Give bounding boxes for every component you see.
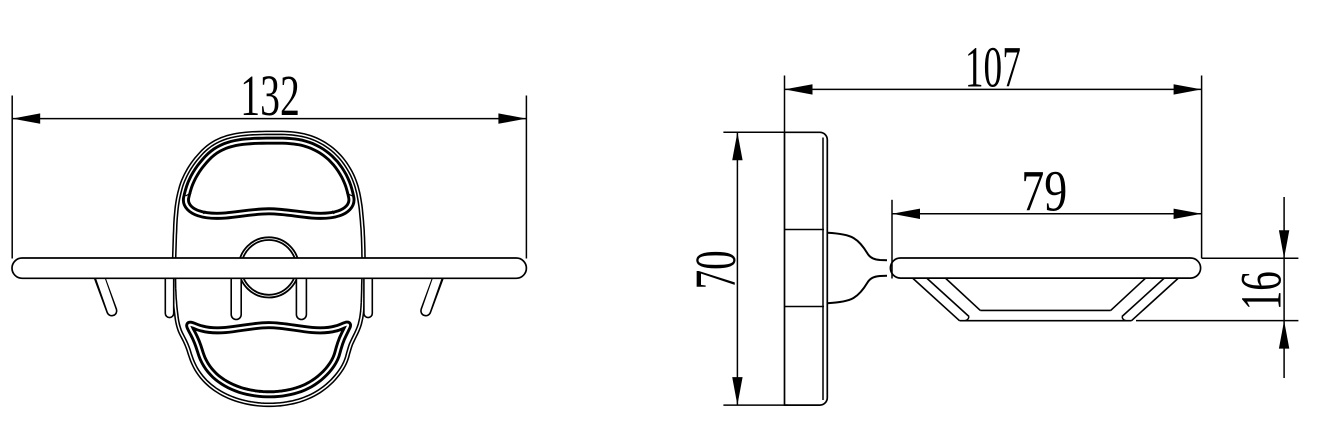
dim 107 extension line left (784, 76, 786, 132)
outer-left vertical leg (165, 270, 175, 313)
dim 70 extension line bottom (723, 404, 788, 406)
plate division line lower (785, 306, 825, 308)
top rim wire joint tick right-lower (332, 211, 334, 214)
soap dish bar (side view) (890, 258, 1200, 278)
dim 132 right arrow (498, 113, 526, 123)
top dish rim wire (D-shape) (186, 141, 352, 216)
dim 79 line (892, 213, 1202, 215)
dim 132 extension line left (11, 96, 13, 259)
dim 70 extension line top (723, 131, 788, 133)
svg-text:16: 16 (1228, 271, 1293, 310)
inner-right vertical leg (296, 270, 308, 315)
dim 79 extension line left (891, 200, 893, 279)
dim 70 top arrow (732, 132, 742, 160)
basket right middle slant (1122, 278, 1164, 317)
dim 16 extension line bottom (1136, 320, 1298, 322)
dim 132 extension line right (525, 96, 527, 259)
dim 16 line (1283, 197, 1285, 378)
svg-text:132: 132 (240, 63, 299, 128)
plate division line upper (785, 229, 825, 231)
top rim wire joint tick right-upper (346, 193, 352, 196)
dim 107 left arrow (785, 84, 813, 94)
dim 16 extension line top (1202, 257, 1299, 259)
basket left middle slant (927, 278, 969, 317)
basket left wire end tick (965, 317, 969, 321)
basket right wire end tick (1122, 317, 1126, 321)
dim 107 line (785, 88, 1202, 90)
svg-text:79: 79 (1021, 159, 1067, 224)
left diagonal leg (98, 270, 112, 311)
bottom dish rim wire (D-shape) (189, 325, 348, 395)
right diagonal leg (426, 270, 440, 311)
basket right inner slant (1111, 278, 1146, 310)
center post circle inner (241, 240, 296, 295)
basket bottom inner line (980, 309, 1110, 311)
top rim wire joint tick left-upper (186, 193, 192, 196)
dim 79 left arrow (892, 209, 920, 219)
wall plate side profile (785, 132, 828, 405)
bracket arm bottom curve (827, 276, 887, 303)
dim 107 right arrow (1174, 84, 1202, 94)
svg-text:107: 107 (965, 35, 1021, 100)
basket left outer slant (913, 278, 960, 321)
dim 70 line (736, 132, 738, 405)
dim 132 left arrow (12, 113, 40, 123)
dim 79 right arrow (1174, 209, 1202, 219)
basket left inner slant (945, 278, 980, 310)
dim 70 bottom arrow (732, 377, 742, 405)
dim 16 bottom arrow (1279, 321, 1289, 349)
top rim wire joint tick left-lower (204, 211, 206, 214)
center post circle outer (239, 237, 299, 297)
dim 16 top arrow (1279, 230, 1289, 258)
svg-text:70: 70 (683, 250, 748, 289)
basket bottom outer line (960, 320, 1132, 322)
basket right outer slant (1132, 278, 1179, 321)
dim 107/79/16 shared extension line right (1201, 76, 1203, 259)
dim 132 line (12, 118, 526, 120)
plate face inner line (822, 138, 824, 401)
inner-left vertical leg (230, 270, 242, 315)
outer-right vertical leg (363, 270, 373, 313)
wall plate outline (double line) (174, 133, 364, 405)
soap dish bar (front view) (12, 258, 526, 278)
bracket arm top curve (827, 233, 887, 260)
